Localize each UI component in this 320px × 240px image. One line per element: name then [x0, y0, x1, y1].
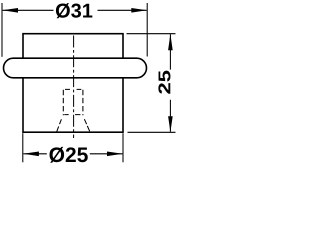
label dia 25 [50, 147, 88, 163]
hole left wall (hidden) [62, 90, 64, 115]
extension line top for 25 [127, 33, 176, 35]
extension line left for dia 25 [22, 133, 24, 162]
body cylinder outline [23, 34, 123, 133]
countersink cone left (hidden) [57, 119, 62, 132]
arrow down 25 [168, 116, 173, 132]
extension line right for dia 31 [146, 3, 148, 57]
label dia 31 [56, 3, 92, 18]
flange capsule (rubber ring) [4, 58, 147, 78]
arrow up 25 [168, 34, 173, 50]
countersink cone right (hidden) [84, 119, 89, 131]
hole top (hidden) [65, 88, 81, 90]
centerline [73, 36, 75, 139]
extension line bottom for 25 [128, 131, 176, 133]
label 25 (rotated) [158, 71, 170, 94]
arrow right dia 31 [131, 8, 147, 13]
dimension line 25 [169, 34, 171, 131]
dimension line dia 25 [23, 153, 122, 155]
arrow right dia 25 [107, 152, 123, 157]
extension line left for dia 31 [1, 3, 3, 57]
arrow left dia 31 [2, 8, 18, 13]
hole bottom / countersink top (hidden) [64, 114, 80, 116]
extension line right for dia 25 [122, 133, 124, 162]
dimension line dia 31 [3, 9, 147, 11]
arrow left dia 25 [23, 152, 39, 157]
hole right wall (hidden) [82, 90, 84, 115]
